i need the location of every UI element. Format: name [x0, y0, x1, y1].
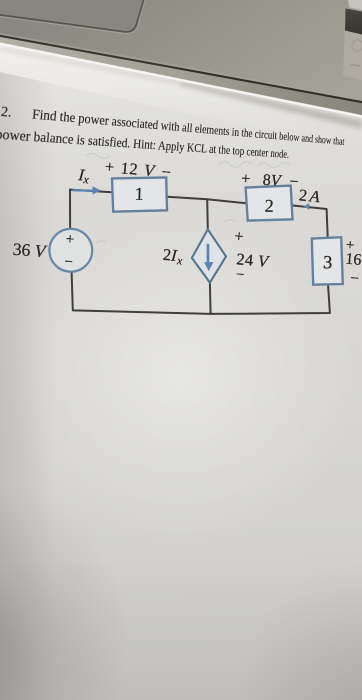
svg-text:−: − — [235, 267, 245, 284]
svg-text:Ix: Ix — [76, 165, 91, 187]
svg-text:3: 3 — [323, 253, 333, 273]
svg-text:36 V: 36 V — [12, 239, 48, 261]
svg-text:+: + — [65, 232, 75, 249]
svg-text:1: 1 — [134, 184, 144, 204]
svg-text:−: − — [64, 254, 74, 271]
svg-text:−: − — [350, 271, 360, 288]
svg-text:+8V−: +8V− — [241, 170, 299, 190]
svg-text:+: + — [234, 228, 244, 246]
svg-text:2A: 2A — [298, 185, 321, 206]
svg-text:2Ix: 2Ix — [162, 245, 185, 268]
svg-text:16: 16 — [345, 251, 362, 269]
svg-text:2: 2 — [264, 196, 274, 216]
